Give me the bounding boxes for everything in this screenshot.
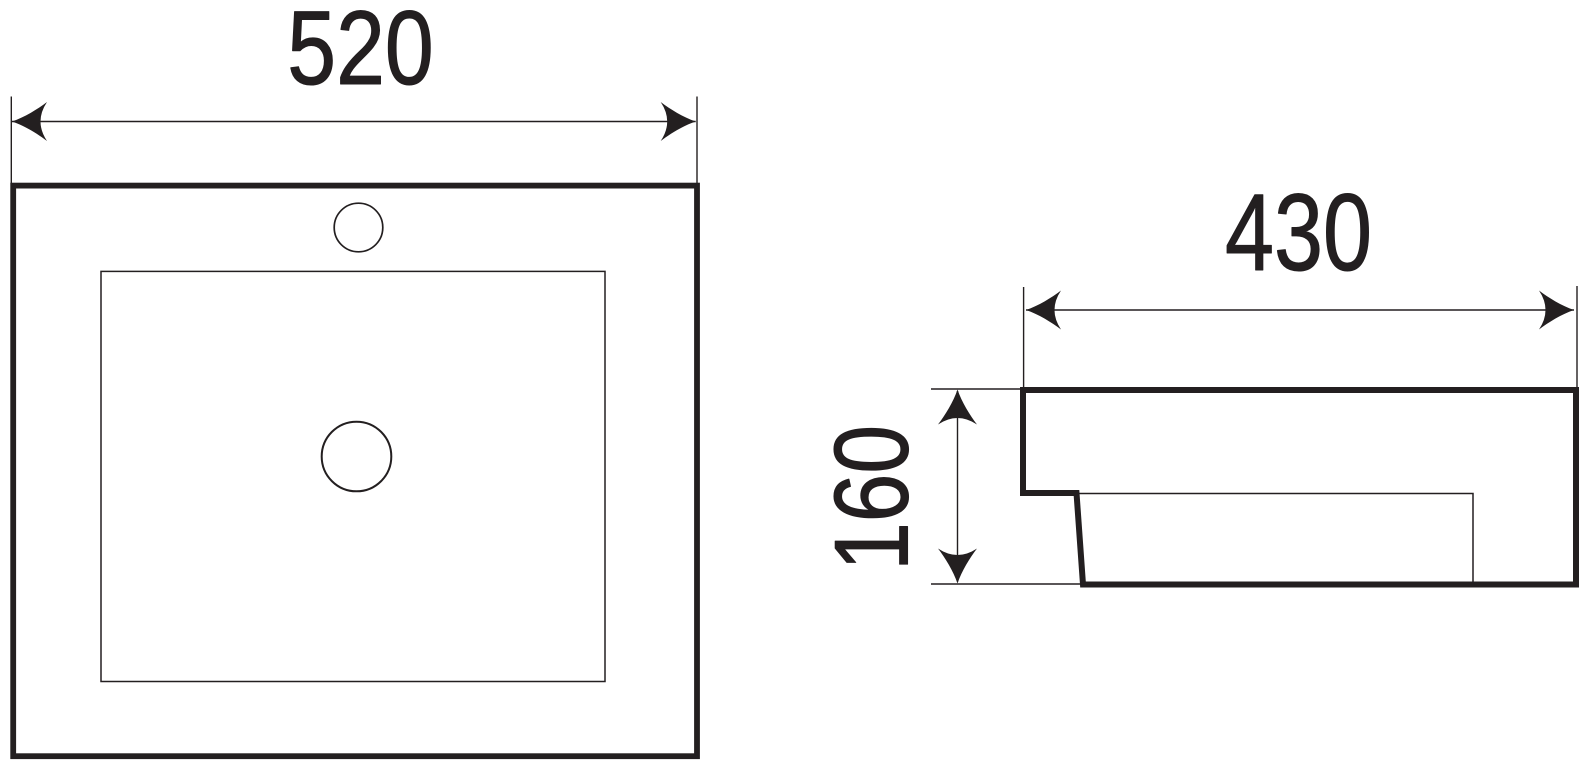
svg-text:430: 430	[1225, 172, 1372, 294]
svg-text:520: 520	[287, 0, 434, 107]
svg-text:160: 160	[814, 425, 931, 571]
